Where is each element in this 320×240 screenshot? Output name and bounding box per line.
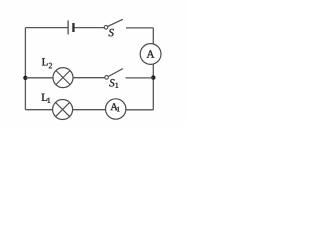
lamp L2 circle — [53, 68, 73, 88]
label L1 letter L — [42, 94, 48, 101]
wire: top-left horizontal from corner to battery — [25, 27, 68, 29]
junction dot right (node) — [151, 75, 155, 79]
wire: left vertical — [24, 28, 26, 110]
lamp L1 circle — [53, 100, 73, 120]
label S1 subscript 1 — [116, 83, 119, 88]
wire: ammeter A to junction — [152, 64, 154, 110]
label L2 letter L — [42, 58, 48, 65]
wire: switch S1 to right junction — [126, 77, 154, 79]
wire: battery to switch S — [75, 27, 104, 29]
wire: right vertical upper (corner to ammeter A) — [152, 28, 154, 44]
ammeter A circle — [140, 44, 161, 65]
ammeter A1 subscript 1 — [117, 107, 119, 112]
lamp L2 cross — [56, 71, 70, 85]
wire: bottom-left corner to lamp L1 — [25, 109, 52, 111]
switch S pivot circle — [104, 26, 108, 30]
label L2 subscript 2 — [49, 63, 52, 68]
ammeter A1 circle — [106, 99, 126, 119]
battery (long thin plate) — [67, 20, 69, 34]
switch S1 blade — [108, 69, 123, 77]
label S — [109, 29, 114, 36]
lamp L1 cross — [56, 102, 70, 116]
label S1 letter S — [109, 79, 114, 86]
wire: lamp L1 to ammeter A1 — [73, 109, 106, 111]
wire: ammeter A1 to bottom-right corner — [126, 109, 153, 111]
label L1 subscript 1 — [48, 98, 51, 103]
wire: middle branch, left junction to lamp L2 — [25, 77, 53, 79]
switch S blade — [108, 19, 123, 26]
ammeter A letter — [147, 50, 155, 57]
switch S1 pivot circle — [105, 76, 109, 80]
wire: lamp L2 to switch S1 — [73, 77, 105, 79]
junction dot left (node) — [23, 76, 27, 80]
ammeter A1 letter A — [110, 103, 117, 110]
wire: switch S to top-right corner — [126, 27, 153, 29]
battery (short thick plate) — [72, 23, 74, 32]
